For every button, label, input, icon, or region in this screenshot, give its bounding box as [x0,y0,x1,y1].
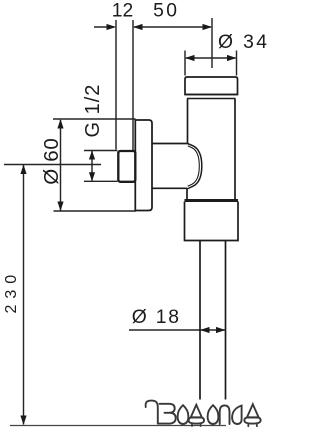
svg-text:Ø 34: Ø 34 [218,32,268,53]
svg-text:G 1/2: G 1/2 [82,84,104,138]
svg-text:50: 50 [153,1,179,22]
svg-text:12: 12 [112,1,133,22]
svg-text:Ø 60: Ø 60 [40,138,63,185]
svg-text:230: 230 [3,269,20,314]
svg-text:Ø 18: Ø 18 [132,307,181,328]
